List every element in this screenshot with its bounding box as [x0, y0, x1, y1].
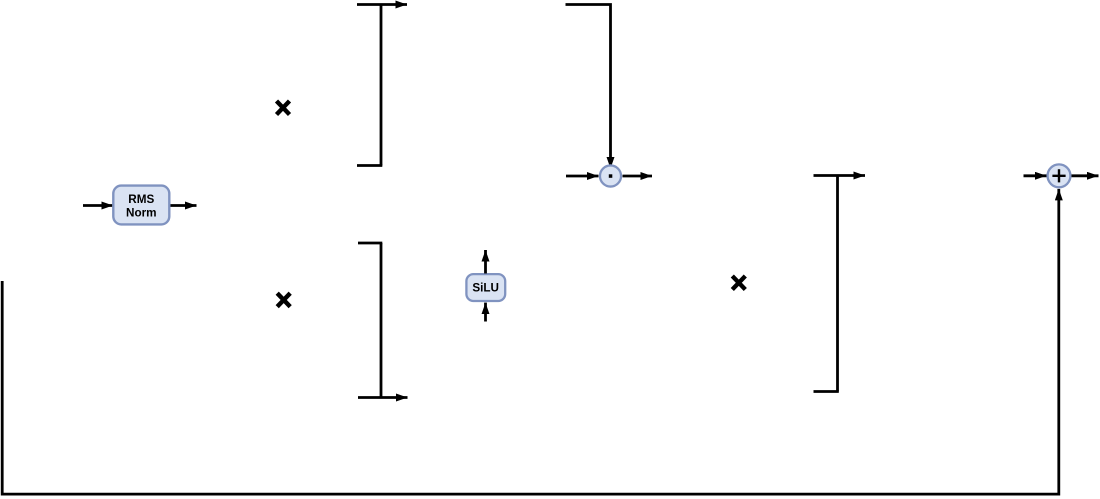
wire: arrow up into SiLU [484, 303, 487, 322]
wire: residual skip connection (left down, along bottom, up to adder) [2, 189, 1059, 494]
wire: output arrow of adder [1072, 174, 1099, 177]
block SiLU activation [466, 274, 505, 301]
wire: arrow into elementwise product from left [566, 175, 599, 178]
wire: output arrow of RMS Norm [171, 204, 197, 207]
svg-text:RMS: RMS [128, 193, 154, 206]
bracket: down-projection weight matrix with output arrow (right) [814, 176, 866, 392]
operator: elementwise (Hadamard) product circle [600, 165, 621, 186]
bracket: up-projection weight matrix with output arrow (bottom) [358, 243, 408, 398]
svg-text:SiLU: SiLU [472, 282, 499, 295]
wire: input arrow into RMS Norm [83, 204, 113, 207]
wire: arrow out of elementwise product [623, 175, 653, 178]
block RMS Norm [113, 186, 169, 225]
wire: arrow into adder from left [1024, 174, 1047, 177]
bracket: gate weight matrix with output arrow (top) [357, 5, 407, 166]
multiply sign (up projection) [277, 293, 290, 307]
multiply sign (gate projection) [277, 101, 290, 115]
wire: arrow up out of SiLU [484, 250, 487, 274]
multiply sign (down projection) [732, 276, 745, 290]
wire: elbow from top into elementwise product [566, 5, 611, 169]
operator: residual adder circle with plus [1048, 164, 1071, 187]
svg-text:Norm: Norm [126, 207, 157, 220]
